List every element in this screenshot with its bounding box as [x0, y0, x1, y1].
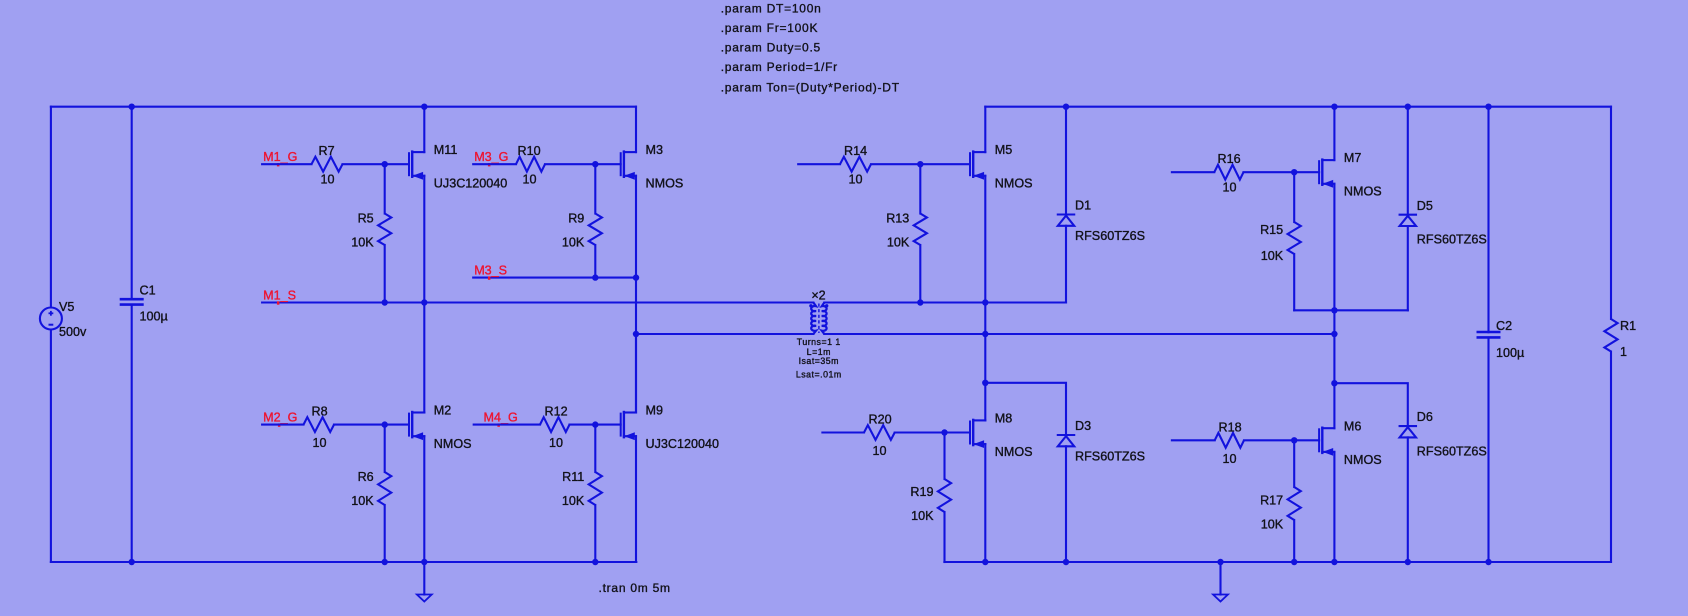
transistor M11	[409, 107, 507, 303]
svg-text:R8: R8	[312, 405, 328, 419]
junction R18/R17 node	[1291, 437, 1297, 443]
svg-text:R20: R20	[869, 413, 892, 427]
svg-text:R7: R7	[319, 144, 335, 158]
wire rail A right	[824, 301, 1066, 303]
junction M8 source on bottom rail	[982, 559, 988, 565]
svg-text:100µ: 100µ	[140, 309, 168, 323]
junction M3 source on M3_S rail	[633, 274, 639, 280]
resistor R10	[473, 144, 620, 186]
svg-text:R9: R9	[568, 212, 584, 226]
resistor R6	[351, 425, 391, 562]
svg-text:RFS60TZ6S: RFS60TZ6S	[1075, 450, 1145, 464]
net label M3_S	[474, 264, 507, 280]
svg-text:RFS60TZ6S: RFS60TZ6S	[1417, 444, 1487, 458]
svg-text:10K: 10K	[1261, 518, 1284, 532]
junction R17 bottom on bottom rail	[1291, 559, 1297, 565]
svg-text:×2: ×2	[811, 289, 825, 303]
svg-text:10: 10	[549, 436, 563, 450]
svg-text:M3_G: M3_G	[474, 150, 508, 164]
svg-text:NMOS: NMOS	[995, 177, 1033, 191]
resistor R11	[562, 425, 602, 562]
junction R14/R13 node	[917, 161, 923, 167]
wire C2 top lead	[1487, 107, 1489, 333]
svg-text:M6: M6	[1344, 419, 1362, 433]
svg-text:100µ: 100µ	[1496, 346, 1524, 360]
resistor R5	[351, 164, 391, 302]
junction M7 column on rail B	[1331, 331, 1337, 337]
wire R15-M7-D5 bar	[1294, 309, 1408, 311]
svg-text:M7: M7	[1344, 151, 1362, 165]
svg-text:10K: 10K	[562, 494, 585, 508]
wire M3 source to rail B	[635, 278, 637, 334]
svg-text:10K: 10K	[351, 236, 374, 250]
junction M6 drain / D6 node	[1331, 380, 1337, 386]
wire D6 elbow	[1334, 383, 1407, 426]
junction M5 source on rail A	[982, 299, 988, 305]
wire C2 bottom lead	[1487, 338, 1489, 562]
svg-text:M3_S: M3_S	[474, 264, 507, 278]
spice directive .tran	[599, 581, 671, 595]
svg-text:D1: D1	[1075, 199, 1091, 213]
svg-text:V5: V5	[59, 300, 74, 314]
wire rail B left	[636, 333, 813, 335]
svg-text:R14: R14	[844, 144, 867, 158]
diode D5	[1400, 107, 1487, 311]
svg-text:C2: C2	[1496, 319, 1512, 333]
junction R11 bottom on bottom rail	[592, 559, 598, 565]
svg-text:10: 10	[313, 436, 327, 450]
junction C2 bottom	[1485, 559, 1491, 565]
wire M6 drain lead	[1333, 383, 1335, 428]
wire left rail bottom	[50, 330, 52, 562]
svg-text:C1: C1	[140, 284, 156, 298]
svg-text:.param DT=100n: .param DT=100n	[721, 1, 822, 15]
ground left	[417, 562, 432, 602]
svg-text:10K: 10K	[887, 236, 910, 250]
svg-text:R18: R18	[1219, 420, 1242, 434]
svg-text:M11: M11	[434, 143, 458, 157]
junction M2 source / ground node	[421, 559, 427, 565]
svg-text:RFS60TZ6S: RFS60TZ6S	[1417, 232, 1487, 246]
junction M5 column on rail B	[982, 331, 988, 337]
voltage source V5	[40, 300, 87, 339]
junction C2 top	[1485, 104, 1491, 110]
svg-text:Turns=1 1: Turns=1 1	[797, 337, 841, 347]
transistor M2	[409, 303, 472, 563]
svg-text:RFS60TZ6S: RFS60TZ6S	[1075, 229, 1145, 243]
svg-text:D5: D5	[1417, 199, 1433, 213]
wire top rail left	[51, 106, 636, 108]
junction D6 bottom on bottom rail	[1405, 559, 1411, 565]
svg-text:1: 1	[1620, 345, 1627, 359]
resistor R16	[1172, 152, 1319, 194]
transistor M6	[1319, 419, 1382, 562]
diode D6	[1400, 410, 1487, 562]
wire C1 top lead	[131, 107, 133, 300]
capacitor C1	[120, 284, 168, 324]
junction M3 column on rail B	[633, 331, 639, 337]
svg-text:R1: R1	[1620, 319, 1636, 333]
svg-text:Isat=35m: Isat=35m	[799, 356, 839, 366]
resistor R17	[1260, 440, 1301, 562]
resistor R20	[822, 413, 969, 459]
transistor M8	[970, 412, 1033, 563]
svg-text:R16: R16	[1218, 152, 1241, 166]
junction R13 bottom on rail A	[917, 299, 923, 305]
resistor R18	[1172, 420, 1319, 466]
wire rail A left (M1_S net)	[262, 301, 813, 303]
wire top rail right	[985, 106, 1611, 108]
svg-text:500v: 500v	[59, 325, 87, 339]
junction R16/R15 node	[1291, 169, 1297, 175]
capacitor C2	[1477, 319, 1525, 360]
resistor R14	[798, 144, 970, 186]
transistor M3	[621, 107, 684, 278]
svg-text:R6: R6	[358, 470, 374, 484]
spice directive .param lines	[721, 1, 900, 94]
svg-text:10: 10	[523, 173, 537, 187]
transistor M7	[1319, 107, 1382, 311]
svg-text:NMOS: NMOS	[995, 445, 1033, 459]
svg-text:UJ3C120040: UJ3C120040	[434, 177, 508, 191]
junction M7 drain on top rail	[1331, 104, 1337, 110]
svg-text:R13: R13	[886, 212, 909, 226]
svg-text:10: 10	[849, 173, 863, 187]
svg-text:10K: 10K	[1261, 249, 1284, 263]
net label M1_S	[263, 289, 296, 305]
net label M1_G	[263, 150, 297, 166]
svg-text:NMOS: NMOS	[1344, 185, 1382, 199]
wire bottom rail right	[944, 561, 1611, 563]
diode D3	[1058, 419, 1145, 562]
svg-text:.param Fr=100K: .param Fr=100K	[721, 21, 819, 35]
junction R7/R5 node	[382, 161, 388, 167]
svg-text:10: 10	[1223, 452, 1237, 466]
svg-text:R19: R19	[910, 485, 933, 499]
wire M3_S rail	[473, 277, 636, 279]
net label M2_G	[263, 411, 297, 427]
wire M5 column rail B to D3 node	[984, 334, 986, 383]
junction R9 bottom on M3_S rail	[592, 274, 598, 280]
svg-text:M3: M3	[646, 143, 664, 157]
svg-text:NMOS: NMOS	[434, 437, 472, 451]
transformer X2 (coupled inductors L1 L2)	[796, 289, 842, 380]
junction M11 source on rail A	[421, 299, 427, 305]
junction R20/R19 node	[941, 429, 947, 435]
net label M4_G	[484, 411, 518, 427]
resistor R19	[910, 433, 951, 563]
svg-text:10K: 10K	[562, 236, 585, 250]
svg-text:M1_S: M1_S	[263, 289, 296, 303]
junction R12/R11 node	[592, 421, 598, 427]
wire rail B right	[824, 333, 1334, 335]
svg-text:.tran 0m 5m: .tran 0m 5m	[599, 581, 671, 595]
transistor M9	[621, 334, 719, 562]
wire M7 column bar to rail B	[1333, 310, 1335, 334]
svg-text:.param Period=1/Fr: .param Period=1/Fr	[721, 60, 838, 74]
wire left rail top	[50, 107, 52, 308]
net label M3_G	[474, 150, 508, 166]
resistor R15	[1260, 172, 1301, 310]
junction R6 bottom on bottom rail	[382, 559, 388, 565]
svg-text:R10: R10	[518, 144, 541, 158]
junction D5 top on top rail	[1405, 104, 1411, 110]
svg-text:D6: D6	[1417, 410, 1433, 424]
junction ground right node	[1217, 559, 1223, 565]
resistor R12	[474, 405, 621, 451]
svg-text:10: 10	[873, 444, 887, 458]
junction M7 source on bar	[1331, 307, 1337, 313]
svg-text:10K: 10K	[351, 494, 374, 508]
junction R8/R6 node	[382, 421, 388, 427]
junction D3 bottom on bottom rail	[1063, 559, 1069, 565]
junction R5 bottom on rail A	[382, 299, 388, 305]
svg-text:M9: M9	[646, 404, 664, 418]
svg-text:R5: R5	[358, 212, 374, 226]
wire M7 column rail B to D6 node	[1333, 334, 1335, 383]
resistor R9	[562, 164, 602, 277]
junction M11 drain on top rail	[421, 104, 427, 110]
svg-text:NMOS: NMOS	[646, 177, 684, 191]
svg-text:D3: D3	[1075, 419, 1091, 433]
wire M5 column rail A to rail B	[984, 303, 986, 335]
svg-text:Lsat=.01m: Lsat=.01m	[796, 370, 842, 380]
wire bottom rail left	[51, 561, 636, 563]
svg-text:10K: 10K	[911, 509, 934, 523]
junction M6 source on bottom rail	[1331, 559, 1337, 565]
junction M8 drain / D3 node	[982, 380, 988, 386]
junction R10/R9 node	[592, 161, 598, 167]
svg-text:.param Ton=(Duty*Period)-DT: .param Ton=(Duty*Period)-DT	[721, 81, 900, 95]
svg-text:10: 10	[1223, 181, 1237, 195]
transistor M5	[970, 107, 1033, 303]
svg-text:M2_G: M2_G	[263, 411, 297, 425]
ground right	[1213, 562, 1228, 602]
resistor R1	[1604, 107, 1636, 562]
wire M3 column rail B to M9 drain	[635, 334, 637, 413]
svg-text:10: 10	[321, 173, 335, 187]
resistor R8	[262, 405, 409, 451]
svg-text:.param Duty=0.5: .param Duty=0.5	[721, 41, 821, 55]
svg-text:M8: M8	[995, 412, 1013, 426]
wire D3 elbow	[985, 383, 1066, 435]
diode D1	[1058, 107, 1145, 303]
svg-text:NMOS: NMOS	[1344, 453, 1382, 467]
svg-text:M1_G: M1_G	[263, 150, 297, 164]
resistor R7	[262, 144, 409, 186]
resistor R13	[886, 164, 927, 302]
svg-text:R11: R11	[562, 470, 584, 484]
wire C1 bottom lead	[131, 305, 133, 562]
svg-text:M5: M5	[995, 143, 1013, 157]
svg-text:M4_G: M4_G	[484, 411, 518, 425]
svg-text:R15: R15	[1260, 223, 1283, 237]
svg-text:UJ3C120040: UJ3C120040	[646, 437, 720, 451]
junction C1 bottom	[129, 559, 135, 565]
wire M8 drain lead	[984, 383, 986, 421]
junction D1 top on top rail	[1063, 104, 1069, 110]
svg-text:R17: R17	[1260, 494, 1283, 508]
svg-text:R12: R12	[545, 405, 568, 419]
junction C1 top	[129, 104, 135, 110]
svg-text:M2: M2	[434, 404, 452, 418]
